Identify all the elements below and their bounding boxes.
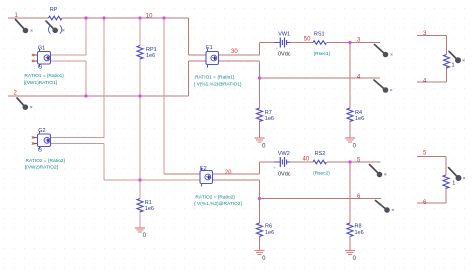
resistor R7 bbox=[257, 108, 263, 121]
svg-text:G: G bbox=[38, 65, 42, 71]
ground 0 at R1 bbox=[135, 228, 147, 239]
svg-text:RATIO1 = {Ratio1}: RATIO1 = {Ratio1} bbox=[195, 74, 235, 80]
wire node 6 row bbox=[260, 198, 382, 200]
dependent source E1 bbox=[206, 45, 219, 68]
wire G1 out+ bbox=[51, 54, 87, 56]
svg-text:G1: G1 bbox=[38, 46, 45, 52]
battery VW2 bbox=[275, 157, 291, 167]
probe marker RP bbox=[46, 21, 64, 34]
svg-text:1e6: 1e6 bbox=[355, 230, 364, 236]
svg-text:1: 1 bbox=[452, 62, 455, 68]
svg-text:[(VW1)RATIO1]: [(VW1)RATIO1] bbox=[24, 80, 57, 86]
wire node 2 row bbox=[8, 95, 189, 97]
battery VW1 bbox=[275, 38, 291, 48]
probe marker node1 bbox=[16, 20, 33, 34]
wire vertical x86 bbox=[85, 18, 87, 96]
resistor RS1 bbox=[313, 41, 326, 45]
dependent source G2 bbox=[32, 128, 51, 153]
wire node 5 row bbox=[260, 161, 381, 163]
svg-text:RS2: RS2 bbox=[315, 151, 326, 157]
probe marker node3 bbox=[375, 45, 393, 58]
ground 0 at R4 bbox=[345, 138, 357, 149]
svg-text:R6: R6 bbox=[265, 224, 272, 230]
svg-text:0Vdc: 0Vdc bbox=[278, 171, 291, 177]
ground 0 at R8 bbox=[345, 251, 357, 262]
junction node5-R8 bbox=[348, 160, 351, 163]
svg-text:VW1: VW1 bbox=[278, 31, 290, 37]
resistor RP1 bbox=[137, 46, 143, 59]
probe marker load A bbox=[449, 51, 465, 68]
probe marker node5 bbox=[370, 165, 387, 178]
svg-text:E1: E1 bbox=[206, 45, 213, 51]
svg-text:E2: E2 bbox=[200, 166, 207, 172]
svg-text:40: 40 bbox=[303, 157, 310, 163]
junction node2-R1 bbox=[138, 178, 141, 181]
wire v260 to R7 bbox=[259, 78, 261, 138]
dependent source E2 bbox=[200, 166, 213, 187]
wire G2 out- bbox=[51, 144, 141, 181]
svg-text:{Rsec1}: {Rsec1} bbox=[314, 51, 331, 57]
wire v350b to R8 bbox=[349, 162, 351, 251]
svg-text:G: G bbox=[38, 148, 42, 154]
svg-text:{Rsec2}: {Rsec2} bbox=[313, 171, 330, 177]
svg-text:VW2: VW2 bbox=[278, 151, 290, 157]
resistor load B bbox=[443, 175, 449, 188]
svg-text:1e6: 1e6 bbox=[145, 206, 154, 212]
svg-text:1e6: 1e6 bbox=[265, 230, 274, 236]
svg-text:0Vdc: 0Vdc bbox=[278, 52, 291, 58]
resistor RP bbox=[49, 16, 62, 20]
junction node2-G1 bbox=[84, 94, 87, 97]
resistor R1 bbox=[137, 199, 143, 212]
ground 0 at R7 bbox=[255, 138, 267, 149]
resistor RS2 bbox=[313, 160, 326, 164]
svg-text:{ V(%1,%2)@RATIO1}: { V(%1,%2)@RATIO1} bbox=[194, 82, 242, 88]
wire E2 out- riser bbox=[213, 180, 260, 199]
wire load loop B bbox=[417, 157, 446, 204]
svg-text:50: 50 bbox=[304, 37, 311, 43]
junction node3-R4 bbox=[348, 41, 351, 44]
junction node2-RP1 bbox=[138, 94, 141, 97]
junction node6-R6 bbox=[258, 197, 261, 200]
wire load loop A bbox=[417, 36, 447, 83]
wire G1 out- bbox=[51, 60, 87, 62]
wire E1 out+ riser bbox=[219, 43, 260, 56]
svg-text:RP: RP bbox=[50, 7, 58, 13]
probe marker node2 bbox=[17, 98, 32, 110]
wire E1 out- riser bbox=[219, 61, 260, 78]
wire node 4 row bbox=[260, 77, 381, 79]
junction node10-E2 bbox=[162, 16, 165, 19]
svg-text:30: 30 bbox=[231, 49, 238, 55]
wire vertical x164 bbox=[163, 18, 165, 174]
resistor R8 bbox=[347, 223, 353, 236]
svg-text:RATIO1 = {Ratio1}: RATIO1 = {Ratio1} bbox=[24, 73, 64, 79]
wire vertical x104 bbox=[103, 18, 105, 180]
probe marker node6 bbox=[376, 201, 394, 213]
svg-text:RS1: RS1 bbox=[314, 31, 325, 37]
resistor R4 bbox=[347, 108, 353, 121]
junction node10-RP1 bbox=[138, 16, 141, 19]
probe marker node4 bbox=[374, 80, 392, 93]
svg-text:RATIO2 = {Ratio2}: RATIO2 = {Ratio2} bbox=[26, 158, 66, 164]
svg-text:RATIO2 = {Ratio2}: RATIO2 = {Ratio2} bbox=[195, 195, 235, 201]
wire G2 out+ bbox=[51, 137, 105, 139]
wire E2 lower input segment bbox=[140, 179, 200, 181]
svg-text:1: 1 bbox=[452, 181, 455, 187]
resistor load A bbox=[444, 55, 450, 68]
resistor R6 bbox=[257, 223, 263, 236]
wire vertical x140 bbox=[139, 18, 141, 228]
svg-text:{ V(%1,%2)@RATIO2}: { V(%1,%2)@RATIO2} bbox=[194, 201, 242, 207]
wire E2 out+ riser bbox=[213, 162, 260, 174]
wire v350 to R4 bbox=[349, 43, 351, 139]
svg-text:R8: R8 bbox=[355, 224, 362, 230]
svg-text:1e6: 1e6 bbox=[146, 53, 155, 59]
svg-text:[(VW2)RATIO2]: [(VW2)RATIO2] bbox=[25, 164, 58, 170]
svg-text:1e6: 1e6 bbox=[355, 116, 364, 122]
wire riser to E1 lower input bbox=[189, 61, 207, 96]
junction node10-G2 bbox=[102, 16, 105, 19]
svg-text:G2: G2 bbox=[38, 128, 45, 134]
wire v260b to R6 bbox=[259, 199, 261, 251]
probe marker load B bbox=[449, 168, 466, 187]
wire node10 corner to E1 upper input bbox=[189, 18, 207, 55]
wire node 3 row bbox=[260, 42, 381, 44]
junction node4-R7 bbox=[258, 76, 261, 79]
wire node 10 top row bbox=[8, 17, 189, 19]
dependent source G1 bbox=[32, 46, 51, 71]
svg-text:10: 10 bbox=[146, 14, 153, 20]
ground 0 at R6 bbox=[255, 251, 267, 262]
svg-text:20: 20 bbox=[225, 170, 232, 176]
wire v164 to E2 upper input bbox=[164, 173, 200, 175]
svg-text:1e6: 1e6 bbox=[265, 116, 274, 122]
junction node10-G1 bbox=[84, 16, 87, 19]
